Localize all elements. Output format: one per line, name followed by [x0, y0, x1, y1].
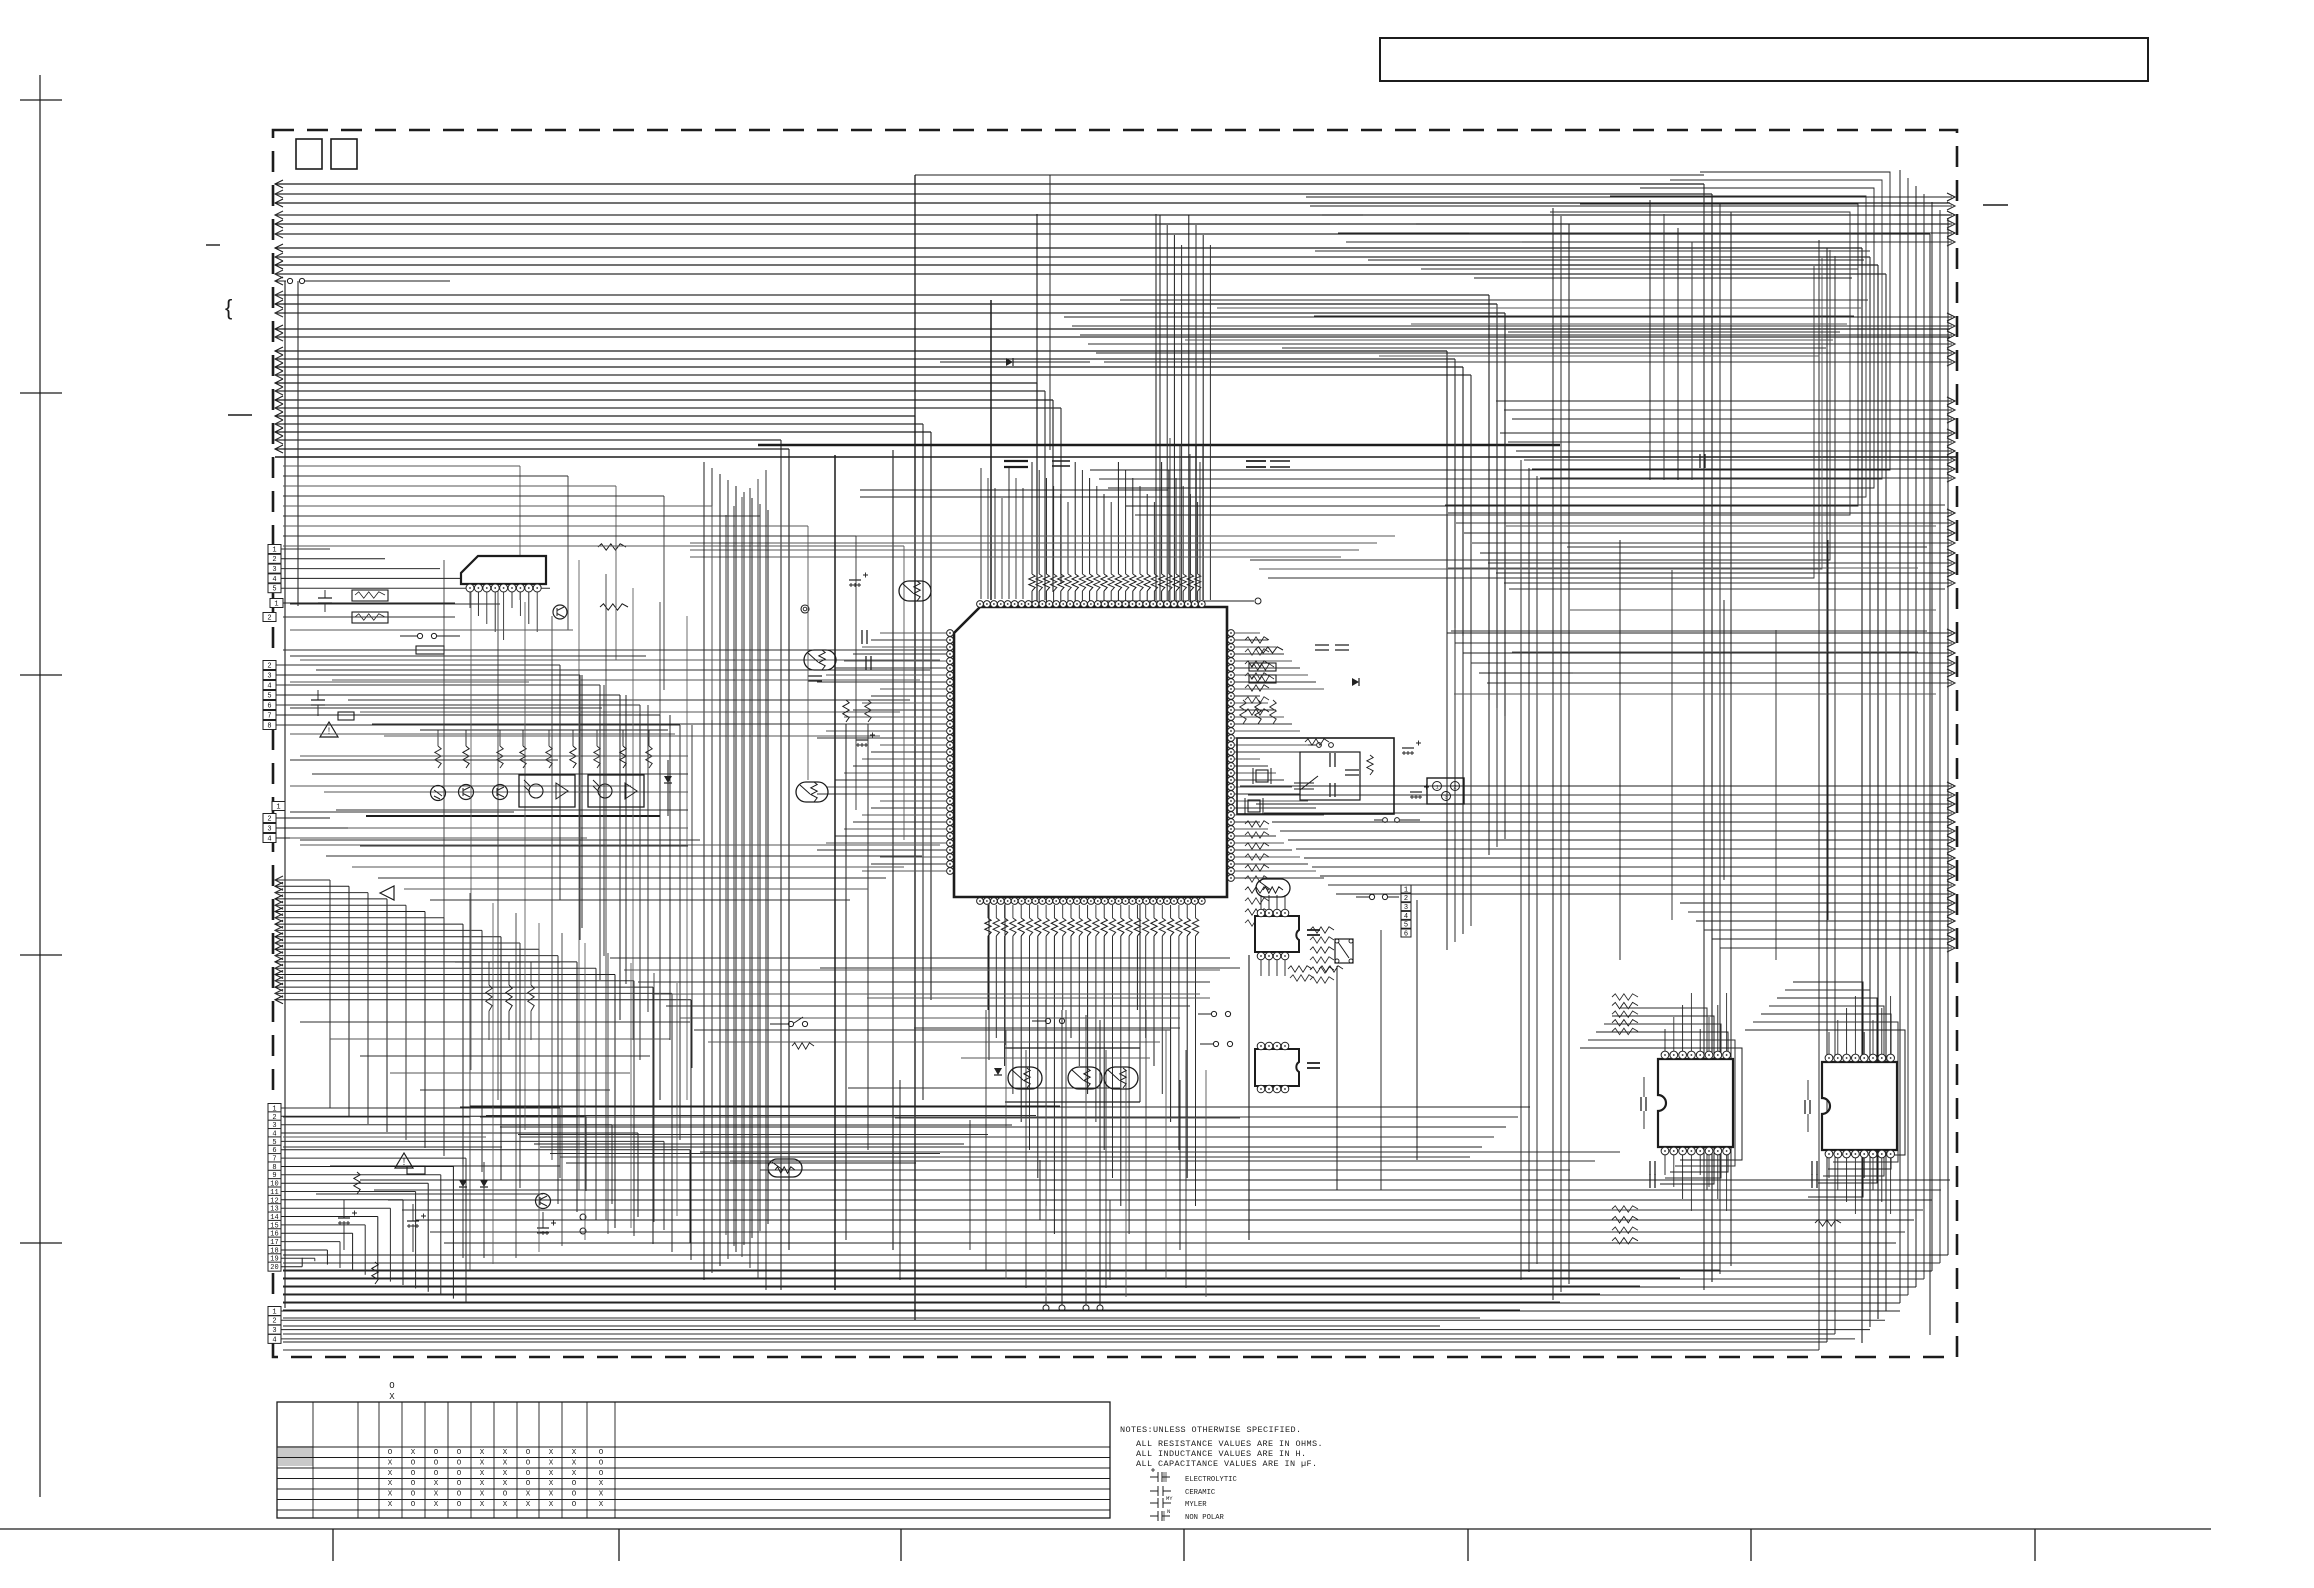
wire cb fill v	[1179, 1080, 1181, 1250]
wire pin lead above U1	[1067, 591, 1069, 602]
wire pin lead below U1	[1070, 905, 1072, 918]
connector P6 pin 2	[268, 1112, 281, 1121]
inductor T-left1	[352, 590, 388, 601]
wire riser above U1	[1031, 462, 1033, 574]
wire P3 lead	[276, 694, 620, 696]
wire tall riser	[1195, 225, 1197, 600]
transistor Q-L2	[493, 785, 508, 800]
svg-text:O: O	[526, 1470, 531, 1478]
resistor below U1	[1109, 918, 1115, 936]
svg-text:2: 2	[1404, 895, 1408, 903]
wire U1 right lead	[1235, 856, 1300, 858]
wire bm vertical	[1248, 955, 1250, 1240]
inductor pair L-r2	[1249, 675, 1276, 683]
connector P6 pin 10	[268, 1179, 281, 1188]
wire tr fill v	[1691, 242, 1693, 480]
svg-text:3: 3	[267, 825, 271, 833]
resistor R-u3a	[1288, 966, 1312, 972]
wire tr fill h2	[1185, 339, 1833, 341]
wire right-exit	[1680, 902, 1952, 904]
svg-text:O: O	[388, 1449, 393, 1457]
svg-text:O: O	[411, 1459, 416, 1467]
resistor above U1	[1058, 574, 1064, 591]
wire cb fill h	[820, 967, 1240, 969]
svg-text:2: 2	[272, 1318, 276, 1326]
resistor below U1	[1026, 918, 1032, 936]
wire stair drop	[559, 665, 561, 900]
wire stair drop	[581, 675, 583, 928]
transistor Q-L1	[459, 785, 474, 800]
svg-text:X: X	[572, 1449, 577, 1457]
wire right-exit	[1447, 632, 1952, 634]
wire pin lead above U1	[1117, 591, 1119, 602]
wire mid cross	[372, 723, 890, 725]
wire left-entry	[275, 936, 501, 938]
wire P6 drop	[465, 1158, 467, 1302]
wire rm fill v	[1671, 570, 1673, 920]
wire left-entry drop	[329, 880, 331, 1108]
wire top bus 20	[275, 374, 1471, 376]
wire right-exit	[1240, 785, 1952, 787]
resistor below U1	[1118, 918, 1124, 936]
wire right-exit	[1504, 409, 1952, 411]
wire P6 lead	[281, 1115, 586, 1117]
legend square 1	[296, 139, 322, 169]
wire left band drop	[615, 486, 617, 660]
wire left-entry	[275, 999, 691, 1001]
wire tr fill h	[1474, 277, 1852, 279]
wire below-IC tall	[1005, 1030, 1007, 1279]
wire right vertical	[1931, 202, 1933, 1271]
wire right vertical	[1899, 170, 1901, 1303]
wire pin lead below U1	[1004, 905, 1006, 918]
wire U1 left lead	[817, 737, 946, 739]
wire U1 left lead	[817, 793, 946, 795]
wire riser above U1	[1153, 502, 1155, 574]
wire P6 drop	[326, 1250, 328, 1265]
bottom frame tick	[1750, 1529, 1752, 1561]
wire left-entry drop	[614, 975, 616, 1229]
wire bottom bus b	[430, 1231, 1905, 1233]
wire U1 left lead	[853, 653, 946, 655]
wire top bus drop 8	[1869, 257, 1871, 1327]
wire right vertical	[1861, 248, 1863, 1343]
capacitor C-top1	[1004, 461, 1028, 467]
wire P6 drop	[663, 1141, 665, 1230]
wire top bus 14	[275, 312, 1505, 314]
IC U8 body	[1822, 1062, 1897, 1150]
wire u7 loop	[1604, 1024, 1721, 1178]
wire top bus drop 7	[1861, 248, 1863, 1343]
svg-text:4: 4	[1404, 913, 1408, 921]
wire fan vertical	[492, 903, 494, 1264]
wire left block h2	[283, 616, 455, 618]
annotation dash right	[1983, 204, 2008, 206]
wire below-IC tall	[1185, 1050, 1187, 1288]
wire right-exit	[1704, 929, 1952, 931]
capacitor C-u8a	[1812, 1161, 1817, 1175]
svg-text:3: 3	[267, 672, 271, 680]
IC U8 top pins	[1825, 1054, 1833, 1062]
wire top bus 22	[275, 390, 1045, 392]
wire mlh fill2	[300, 755, 688, 757]
wire tr fill h2	[1217, 307, 1861, 309]
capacitor C-U4	[1307, 1063, 1320, 1068]
wire left band drop	[759, 516, 761, 750]
wire riser above U1	[1161, 462, 1163, 574]
svg-text:5: 5	[267, 692, 271, 700]
wire pin lead above U1	[1031, 591, 1033, 602]
wire lh fill	[420, 1089, 610, 1091]
capacitor C-r2	[1335, 645, 1349, 650]
wire U1 left lead	[871, 751, 946, 753]
switch SW-b3	[1213, 1041, 1218, 1046]
wire riser above U1	[1053, 486, 1055, 574]
main dashed border	[273, 130, 1957, 1357]
connector P7 pin 4	[268, 1334, 281, 1343]
resistor above U1	[1079, 574, 1085, 591]
wire blk band	[860, 489, 1168, 491]
wire P5 lead	[276, 827, 350, 829]
wire top bus 24	[275, 407, 1061, 409]
svg-text:CERAMIC: CERAMIC	[1185, 1489, 1216, 1497]
resistor above U1	[1086, 574, 1092, 591]
connector P6 pin 19	[268, 1254, 281, 1263]
wire ub band	[700, 1151, 1620, 1153]
capacitor C-left1	[318, 598, 332, 603]
svg-text:X: X	[572, 1470, 577, 1478]
wire drop below U1	[1004, 936, 1006, 1066]
wire cb fill v	[1109, 1200, 1111, 1280]
svg-text:X: X	[480, 1501, 485, 1509]
test point TP-bl1	[580, 1214, 586, 1220]
electrolytic C-blk4	[1410, 791, 1422, 793]
wire right-exit	[1080, 334, 1952, 336]
wire right-exit	[1496, 572, 1952, 574]
wire top link a	[915, 174, 1704, 176]
svg-text:O: O	[503, 1491, 508, 1499]
wire left-entry drop	[557, 956, 559, 1204]
wire U1 right lead	[1235, 814, 1324, 816]
wire P6 lead	[281, 1124, 612, 1126]
wire pin lead above U1	[1074, 591, 1076, 602]
wire left band drop	[903, 546, 905, 840]
wire wedge comb	[566, 1162, 916, 1164]
wire mid band2	[378, 877, 886, 879]
wire top bus 27	[275, 431, 931, 433]
wire long vertical e	[1155, 214, 1157, 600]
diode D-top	[1006, 358, 1013, 366]
wire bottom bus b	[416, 1219, 1914, 1221]
wire below-IC tall	[1065, 1010, 1067, 1270]
wire riser above U1	[1189, 494, 1191, 574]
wire P6 lead	[281, 1140, 664, 1142]
wire U2 pin lead	[503, 592, 505, 640]
wire ub band	[760, 1169, 1570, 1171]
wire lh fill	[300, 1021, 690, 1023]
resistor above U1	[1137, 574, 1143, 591]
wire mlh fill	[290, 629, 573, 631]
inductor T-left2	[352, 612, 388, 623]
wire U1 right lead	[1235, 807, 1316, 809]
wire center vertical	[743, 492, 745, 1245]
wire tr fill h	[1421, 268, 1858, 270]
wire U2 pin lead	[469, 592, 471, 608]
wire right-exit	[1064, 316, 1952, 318]
wire tr fill h2	[1282, 347, 1826, 349]
wire U1 right lead	[1235, 737, 1308, 739]
wire P6 lead	[281, 1157, 466, 1159]
wire left-entry	[275, 942, 520, 944]
wire tall riser	[1166, 225, 1168, 600]
capacitor C-m2	[866, 656, 871, 670]
wire top bus 4	[275, 214, 1950, 216]
wire mlh fill	[290, 733, 675, 735]
resistor R-rv	[1255, 700, 1261, 724]
wire P6 lead	[281, 1249, 327, 1251]
wire fan vertical	[469, 893, 471, 1270]
svg-text:N: N	[1167, 1508, 1170, 1515]
wire left band	[283, 465, 520, 467]
wire U1 right lead	[1235, 660, 1292, 662]
test point TP-m	[801, 605, 809, 613]
wire right vertical	[1496, 304, 1498, 847]
wire right-exit	[1471, 662, 1952, 664]
wire led mid rail	[300, 839, 700, 841]
svg-text:X: X	[480, 1470, 485, 1478]
wire cb fill h	[848, 1087, 1120, 1089]
wire tr fill h2	[1120, 299, 1868, 301]
wire left band	[283, 515, 760, 517]
wire U1 left lead	[871, 863, 946, 865]
wire U1 right lead	[1235, 639, 1268, 641]
wire ur loop	[1108, 188, 1874, 488]
wire rm fill h	[1512, 651, 1918, 653]
wire tall riser	[1188, 215, 1190, 600]
connector P6 pin 6	[268, 1145, 281, 1154]
wire riser above U1b	[1001, 498, 1003, 599]
wire U1 right lead	[1235, 653, 1284, 655]
transistor oval Q-m2	[804, 650, 836, 670]
switch SW-b1	[1045, 1018, 1050, 1023]
wire left-entry	[275, 980, 634, 982]
wire below-IC tall	[1045, 1070, 1047, 1297]
wire U1 left lead	[844, 772, 946, 774]
wire cb fill v	[969, 1120, 971, 1250]
wire U1 right lead	[1235, 800, 1308, 802]
LED D-L1	[431, 786, 446, 801]
svg-text:!: !	[328, 726, 331, 736]
wire U1 right lead	[1235, 793, 1300, 795]
table rows	[277, 1446, 1110, 1448]
wire right-exit	[1500, 432, 1952, 434]
wire bb left ext2	[283, 1136, 486, 1138]
wire P1 lead	[281, 548, 330, 550]
test point TP-bl2	[580, 1228, 586, 1234]
wire bottom bus c	[283, 1293, 1600, 1295]
diode D-bl2	[480, 1180, 488, 1187]
wire heavy center vertical	[834, 455, 836, 1290]
wire U1 left lead	[835, 723, 946, 725]
wire riser above U1	[1103, 494, 1105, 574]
capacitor C-blk5	[1345, 770, 1359, 775]
connector P6 pin 5	[268, 1137, 281, 1146]
resistor above U1	[1130, 574, 1136, 591]
connector P6 pin 9	[268, 1170, 281, 1179]
resistor R-u3c	[1319, 966, 1343, 972]
wire long vertical b	[297, 281, 299, 606]
wire P6 lead	[281, 1174, 441, 1176]
wire U1 right lead	[1235, 758, 1260, 760]
wire top bus 26	[275, 423, 923, 425]
resistor above U1	[1194, 574, 1200, 591]
wire P6 lead	[281, 1166, 453, 1168]
resistor R-box	[416, 646, 444, 654]
wire top bus drop 29	[788, 449, 790, 1250]
resistor R-u7t	[1612, 1002, 1638, 1008]
oscillator Y1	[1008, 1067, 1042, 1089]
wire gray band	[690, 542, 1377, 544]
electrolytic C-bl1	[338, 1217, 350, 1219]
wire left-entry drop	[443, 918, 445, 1156]
wire tr fill v	[1677, 228, 1679, 480]
wire bottom bus a	[540, 1146, 1482, 1148]
wire pin lead above U1	[1168, 591, 1170, 602]
wire P7 lead	[281, 1329, 1870, 1331]
wire drop below U1	[1020, 936, 1022, 1122]
svg-text:X: X	[388, 1491, 393, 1499]
wire P7 lead	[281, 1310, 1900, 1312]
wire mlh fill	[290, 681, 529, 683]
svg-text:X: X	[549, 1459, 554, 1467]
wire P5 lead	[276, 837, 370, 839]
svg-text:X: X	[388, 1501, 393, 1509]
wire U1 right lead	[1235, 772, 1276, 774]
connector P7 pin 1	[268, 1307, 281, 1316]
wire top bus drop 24	[1060, 408, 1062, 584]
left ruler tick	[20, 674, 62, 676]
wire P6 lead	[281, 1224, 365, 1226]
resistor below U1	[993, 918, 999, 936]
resistor R-icr2	[1245, 854, 1269, 860]
wire right-exit	[1455, 642, 1952, 644]
wire gray band	[690, 549, 1359, 551]
resistor below U1	[1001, 918, 1007, 936]
wire drop below U1	[1112, 936, 1114, 1178]
wire pin lead below U1	[1053, 905, 1055, 918]
IC U3 bottom pins	[1257, 952, 1265, 960]
wire drop below U1	[1186, 936, 1188, 1178]
resistor above U1	[1158, 574, 1164, 591]
svg-text:O: O	[434, 1470, 439, 1478]
svg-text:1: 1	[274, 600, 278, 608]
wire right vertical	[1939, 210, 1941, 1263]
resistor R-icr	[1245, 685, 1269, 691]
wire pin lead above U1	[1089, 591, 1091, 602]
wire right-exit	[1448, 512, 1952, 514]
wire center vertical	[751, 498, 753, 1238]
wire left-entry	[275, 923, 463, 925]
diode D-r1	[1352, 678, 1359, 686]
resistor R-icr3	[1310, 967, 1334, 973]
left ruler tick	[20, 1242, 62, 1244]
wire led riser	[648, 730, 650, 746]
wire P6 drop	[637, 1133, 639, 1217]
resistor R-U2b	[600, 604, 628, 610]
wire below-IC tall	[1165, 1030, 1167, 1279]
wire U8 top leads	[1828, 1032, 1830, 1054]
wire right-exit	[1532, 468, 1952, 470]
wire riser above U1	[1045, 478, 1047, 574]
wire right-exit	[1328, 884, 1952, 886]
wire P3 drop	[599, 685, 601, 980]
table columns	[312, 1402, 314, 1518]
wire bottom bus b	[360, 1179, 1950, 1181]
svg-text:4: 4	[267, 835, 271, 843]
wire icr vertical	[1179, 446, 1181, 600]
block box outer	[1237, 738, 1394, 814]
svg-text:O: O	[572, 1491, 577, 1499]
resistor above U1	[1115, 574, 1121, 591]
wire U1 left lead	[835, 835, 946, 837]
wire U1 left lead	[826, 674, 946, 676]
svg-text:O: O	[457, 1470, 462, 1478]
resistor R-bl	[486, 985, 492, 1011]
capacitor C-left2	[311, 700, 325, 705]
wire bottom bus a	[520, 1136, 1494, 1138]
resistor above U1	[1151, 574, 1157, 591]
wire top bus 17	[275, 350, 1447, 352]
wire below-IC tall	[1145, 1010, 1147, 1270]
wire pin lead above U1	[1161, 591, 1163, 602]
fuse F-bl	[407, 1166, 425, 1174]
svg-text:X: X	[434, 1501, 439, 1509]
wire riser above U1b	[1015, 478, 1017, 599]
wire right vertical	[1834, 256, 1836, 1334]
wire U2 pin lead	[486, 592, 488, 624]
wire heavy riser a	[990, 300, 992, 600]
wire wedge comb	[470, 1105, 1060, 1107]
svg-text:O: O	[389, 1381, 394, 1391]
wire rm fill h	[1445, 504, 1945, 506]
wire riser above U1	[1089, 478, 1091, 574]
svg-text:MY: MY	[1166, 1495, 1173, 1502]
wire U7 top leads	[1664, 1029, 1666, 1051]
svg-text:O: O	[457, 1501, 462, 1509]
connector P3 pin 6	[263, 701, 276, 710]
svg-text:1: 1	[1404, 886, 1408, 894]
wire U1 left lead	[871, 695, 946, 697]
wire rm fill h	[1451, 630, 1927, 632]
svg-text:O: O	[599, 1470, 604, 1478]
resistor R-blk1	[1305, 739, 1329, 745]
wire bottom bus b	[444, 1242, 1896, 1244]
wire ml vertical	[659, 602, 661, 1070]
wire tr fill h	[1469, 232, 1882, 234]
wire right vertical	[1454, 359, 1456, 942]
wire pin lead below U1	[1145, 905, 1147, 918]
capacitor C-r3	[1700, 454, 1705, 468]
wire U1 right lead	[1235, 842, 1284, 844]
wire pin lead below U1	[1120, 905, 1122, 918]
resistor above U1	[1108, 574, 1114, 591]
IC U3 top pins	[1257, 909, 1265, 917]
wire heavy riser c	[1202, 445, 1204, 600]
wire bottom bus c	[283, 1269, 1720, 1271]
wire mid band2	[404, 888, 868, 890]
wire riser above U1	[1060, 494, 1062, 574]
wire right vertical	[1504, 313, 1506, 839]
